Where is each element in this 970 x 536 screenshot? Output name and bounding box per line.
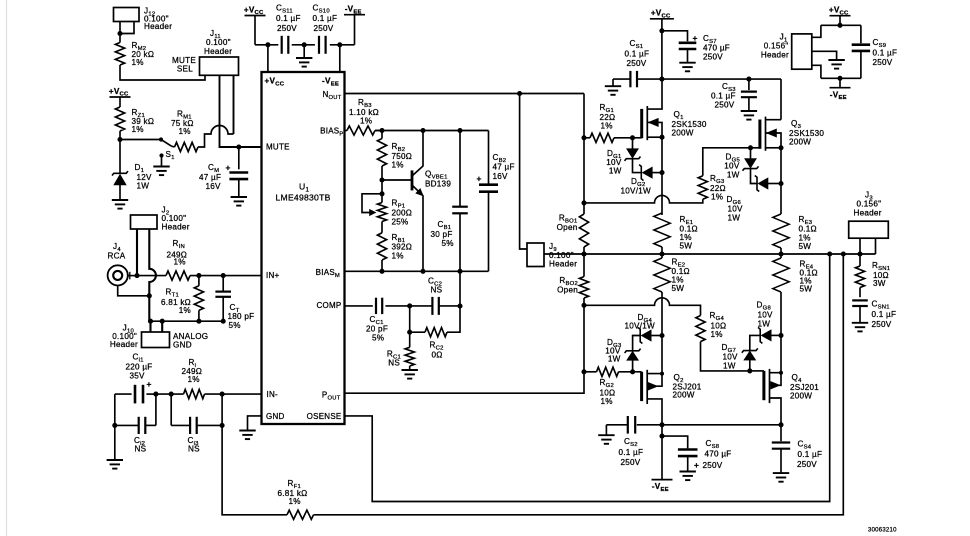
svg-text:0.1 µF: 0.1 µF [711,92,736,101]
power +VCC (J1) [829,6,851,26]
svg-text:Header: Header [144,22,172,31]
svg-text:1%: 1% [188,375,200,384]
wire J11 left pin to MUTE [220,75,262,147]
resistor RC2 [410,306,460,360]
connector J12 header [114,7,173,32]
node IN- junction [220,392,225,426]
connector J2 header [131,206,190,232]
switch S1 [159,137,175,166]
wire feedback run [222,254,843,515]
svg-text:0.156": 0.156" [857,200,882,209]
diode D1 zener [112,140,152,200]
svg-text:250V: 250V [314,24,334,33]
svg-text:0.156": 0.156" [764,42,789,51]
wire Ri to IN- [205,393,262,395]
ground J1 [828,60,844,69]
svg-text:LME49830TB: LME49830TB [276,193,331,203]
svg-text:0.1 µF: 0.1 µF [872,310,897,319]
wire Q1 source to RE1 [661,137,663,215]
svg-text:3W: 3W [873,279,886,288]
power -VEE (U1) [344,5,365,45]
node rail dots [148,319,226,324]
text document number [868,528,897,534]
svg-text:0.1 µF: 0.1 µF [619,448,644,457]
svg-text:250V: 250V [627,59,647,68]
svg-text:Header: Header [162,223,190,232]
wire J12 pins [120,22,134,43]
ground CS7 [679,63,695,72]
svg-text:0.100": 0.100" [206,38,231,47]
resistor RE2 [654,254,690,335]
node RG1-DG1 [630,135,635,140]
ground D1 [112,200,128,209]
ground RC1 [402,370,418,379]
svg-text:250V: 250V [872,320,892,329]
resistor RB2 [377,131,412,181]
node RG3-DG5 [748,145,753,150]
svg-text:IN+: IN+ [266,271,280,280]
svg-text:220 µF: 220 µF [126,363,153,372]
wire BIASM rail [345,270,489,272]
wire N gate bus [583,94,585,255]
ground CSN1 [852,323,868,332]
power +VCC (RZ1) [109,87,131,107]
node DG2-source bus [659,170,664,175]
capacitor CC1 [345,298,410,343]
potentiometer RP1 [362,180,412,233]
wire RIN to IN+ [190,275,262,277]
resistor RBO1 [557,214,589,248]
capacitor CS11 [276,4,301,54]
capacitor CT [215,276,254,330]
diode DG4 zener [625,313,663,351]
resistor RG3 [698,148,750,202]
svg-text:1%: 1% [360,117,372,126]
capacitor CC2 [410,277,460,315]
capacitor CS10 [313,4,338,54]
node RB2 bottom [379,177,384,182]
svg-text:10V: 10V [758,311,774,320]
svg-text:IN-: IN- [267,390,279,399]
capacitor CS1 [625,39,650,87]
resistor Ri [156,358,205,399]
resistor RE1 [654,213,698,254]
wire Q3 source to RE3 [780,148,782,214]
svg-text:1%: 1% [601,397,613,406]
wire Q3 drain drop [780,79,782,120]
svg-text:20 pF: 20 pF [366,325,388,334]
svg-text:1W: 1W [728,214,741,223]
wire NOUT to J9 [520,94,527,250]
node CC2 right [457,303,462,308]
svg-text:+: + [477,174,482,184]
svg-text:5%: 5% [372,334,384,343]
ground CS4 [773,473,789,482]
text ANALOG GND [173,332,208,350]
wire analog ground rail [150,320,223,322]
svg-text:GND: GND [266,412,285,421]
capacitor CB1 [431,131,468,272]
svg-text:250V: 250V [715,101,735,110]
svg-text:OSENSE: OSENSE [307,412,342,421]
svg-text:Open: Open [557,286,578,295]
svg-text:1W: 1W [608,355,621,364]
svg-text:0.1 µF: 0.1 µF [873,49,898,58]
resistor RM1 [171,110,198,152]
transistor Q2 2SJ201 [642,336,702,425]
wire NOUT [345,93,585,95]
svg-text:NS: NS [431,286,443,295]
node NOUT drop [517,91,522,96]
svg-text:10V/1W: 10V/1W [621,187,651,196]
wire Q3 gate link [584,195,703,203]
node J4 out [134,273,139,278]
svg-text:47 µF: 47 µF [199,173,221,182]
diode DG6 zener [727,169,782,223]
svg-text:1W: 1W [609,167,622,176]
svg-text:200Ω: 200Ω [392,209,413,218]
svg-text:250V: 250V [277,24,297,33]
resistor RE4 [773,254,818,335]
ground S1 [153,167,169,176]
node Q2 top stub [660,372,664,376]
svg-text:1%: 1% [289,497,301,506]
node RP1 top [379,191,384,196]
node DG8-source bus [778,333,783,338]
wire VCC rail main [613,78,781,80]
resistor RM2 [115,41,154,67]
node CS8 branch [659,434,664,439]
svg-text:250V: 250V [621,458,641,467]
ground CM [231,197,247,206]
node CC1 right [407,303,412,308]
node D1 junction [117,137,122,142]
wire RZ1 to D1/S1 [120,131,161,140]
node P bus dots [581,303,586,375]
ground CS3 [741,111,757,120]
node N bus dots [581,135,586,205]
wire CC2 to BIASM [459,271,461,306]
svg-text:250V: 250V [873,58,893,67]
svg-text:NS: NS [135,445,147,454]
diode DG2 zener [621,159,663,196]
svg-text:Open: Open [557,223,578,232]
wire output rail [544,253,876,255]
capacitor CB2 [477,131,515,272]
svg-text:+: + [694,460,699,470]
svg-text:1W: 1W [727,171,740,180]
capacitor CS9 [852,25,898,78]
svg-text:5%: 5% [229,321,241,330]
svg-text:Header: Header [549,260,577,269]
resistor RSN1 [855,254,890,297]
svg-text:NS: NS [388,359,400,368]
svg-text:SEL: SEL [177,65,193,74]
diode DG8 zener [750,301,781,351]
svg-text:25%: 25% [392,218,409,227]
node DG6-source bus [778,181,783,186]
svg-text:10V: 10V [724,162,740,171]
svg-text:250V: 250V [797,460,817,469]
svg-text:392Ω: 392Ω [392,243,413,252]
node VCC rail dots [659,77,751,82]
connector J1 header [761,33,812,70]
node bias rail dots [379,128,462,133]
node Ri left dots [153,392,173,397]
svg-text:10V: 10V [723,353,739,362]
node RG4-DG7 [747,368,752,373]
svg-text:MUTE: MUTE [266,143,290,152]
svg-text:1%: 1% [601,122,613,131]
resistor RBO2 [557,254,588,305]
wire -VEE pin drop [339,45,341,72]
svg-text:1W: 1W [758,320,771,329]
svg-text:1%: 1% [392,252,404,261]
svg-text:1%: 1% [179,306,191,315]
svg-text:200W: 200W [790,392,812,401]
wire GND pin [248,416,262,430]
svg-text:+: + [226,163,231,173]
node RT1 top [196,273,201,278]
node rail dots U1 top [265,42,342,47]
resistor RZ1 [115,107,154,134]
svg-text:5W: 5W [800,285,813,294]
capacitor CS7 [662,31,730,62]
resistor RG2 [584,367,642,406]
diode DG5 zener [724,148,758,180]
ground CS1 [605,79,621,95]
wire J2 left pin [136,229,138,276]
diode DG7 zener [722,343,758,371]
node J12-RM2 junction [117,31,122,36]
svg-text:Header: Header [110,340,138,349]
wire J1 top rail [812,25,861,37]
connector J11 header [200,29,239,75]
transistor Q1 2SK1530 [633,79,707,140]
node J1 bottom [837,76,842,81]
power +VCC (U1) [244,5,266,45]
svg-text:1%: 1% [179,127,191,136]
node BIASM dots [379,269,462,274]
svg-text:0.1 µF: 0.1 µF [798,450,823,459]
transistor Q3 2SK1530 [751,117,825,151]
capacitor CS8 [678,439,732,471]
wire to CS8 [662,425,688,449]
text U1 pin labels [265,77,344,422]
svg-text:1%: 1% [392,161,404,170]
svg-text:30 pF: 30 pF [431,230,453,239]
power -VEE (CS2) [652,436,673,493]
capacitor CS4 [772,425,822,473]
svg-text:Header: Header [854,209,882,218]
wire J3 pins [860,238,876,254]
transistor QVBE1 BD139 [382,131,451,272]
resistor RE3 [773,214,817,254]
ground U1 GND [239,431,255,440]
node RG2-DG3 [630,369,635,374]
node CT top [221,273,226,278]
wire Ci1 to Ci2 [114,394,116,425]
resistor RB3 [345,98,383,135]
capacitor Ci2 [115,394,156,453]
svg-text:0.1 µF: 0.1 µF [276,14,301,23]
node Q4 top stub [779,371,783,375]
wire VEE rail left [637,424,781,426]
svg-text:0.1Ω: 0.1Ω [799,225,817,234]
svg-text:0.1 µF: 0.1 µF [313,14,338,23]
node RC1 top [407,330,412,335]
svg-text:250V: 250V [703,53,723,62]
resistor RIN [137,239,190,280]
capacitor CS2 [606,416,643,467]
connector J10 header [110,321,170,349]
svg-text:+: + [693,33,698,43]
capacitor CSN1 [852,300,896,330]
svg-text:47 µF: 47 µF [493,163,515,172]
svg-text:16V: 16V [206,182,222,191]
connector J3 header [849,191,889,239]
capacitor Ci3 [171,394,222,453]
resistor RC1 [387,332,414,369]
svg-text:470 µF: 470 µF [705,450,732,459]
svg-text:NS: NS [188,445,200,454]
capacitor Ci1 [115,353,156,404]
svg-text:0.1 µF: 0.1 µF [625,50,650,59]
svg-text:250V: 250V [703,461,723,470]
svg-text:200W: 200W [672,129,694,138]
connector J9 header [527,242,577,269]
svg-text:10V/1W: 10V/1W [625,321,655,330]
svg-text:1%: 1% [132,125,144,134]
svg-text:1%: 1% [174,258,186,267]
svg-text:1%: 1% [711,330,723,339]
ground CS8 [680,472,696,481]
node Ci3 right [220,423,225,428]
wire J11 right pin [233,75,235,134]
node Q3 source [778,145,783,150]
power +VCC (main) [650,9,674,80]
transistor Q4 2SJ201 [750,335,819,424]
node J1 top [837,23,842,28]
svg-text:35V: 35V [130,372,146,381]
wire RM1 hump over J11 pin [172,126,234,148]
ground CS11/CS10 [296,45,312,67]
diode DG1 zener [606,138,640,176]
node Q4 drain rail [778,422,783,427]
svg-text:5%: 5% [442,239,454,248]
svg-text:Header: Header [761,51,789,60]
svg-text:10V: 10V [728,205,744,214]
text MUTE SEL [172,56,196,74]
svg-text:470 µF: 470 µF [703,44,730,53]
wire J4 shell [118,286,152,299]
wire bias top rail [375,130,489,132]
node Q1 source [659,135,664,140]
wire VCC rail [255,44,355,46]
svg-text:5W: 5W [680,242,693,251]
svg-text:200W: 200W [789,138,811,147]
capacitor CS3 [711,79,757,110]
svg-text:180 pF: 180 pF [228,312,255,321]
wire RM2 to J11 [120,65,205,80]
svg-text:0Ω: 0Ω [432,351,443,360]
op-amp U1 LME49830TB box [262,72,345,424]
node VCC top [659,28,664,33]
resistor RG1 [584,103,633,142]
resistor RF1 [278,479,314,519]
svg-text:1W: 1W [137,182,150,191]
node Q2 drain rail [659,422,664,427]
wire J1 bottom rail [812,65,861,78]
wire J2 right pin hop [149,229,156,321]
capacitor CM [199,144,248,196]
wire +VCC pin drop [267,45,269,72]
svg-text:5W: 5W [672,284,685,293]
svg-text:COMP: COMP [317,301,342,310]
diode DG3 zener [605,338,640,372]
wire J1 mid to ground [812,51,837,59]
connector J4 RCA [108,242,138,286]
svg-text:1%: 1% [132,58,144,67]
svg-text:Header: Header [204,47,232,56]
resistor RG4 [696,311,750,371]
svg-text:1%: 1% [711,193,723,202]
wire RG4 link [584,298,701,316]
ground CS2 [598,425,614,444]
svg-text:RCA: RCA [108,252,126,261]
node output rail dots [581,251,862,256]
node Ci2 left [112,423,117,428]
svg-text:5W: 5W [799,242,812,251]
node DG4-source bus [659,333,664,338]
power -VEE (J1) [830,78,851,101]
svg-text:16V: 16V [493,172,509,181]
svg-text:30063210: 30063210 [868,528,897,534]
ground Ci2 [107,425,123,468]
resistor RB1 [377,233,412,271]
resistor RT1 [161,276,203,322]
svg-text:200W: 200W [673,391,695,400]
wire OSENSE run [345,254,830,502]
svg-text:1W: 1W [723,362,736,371]
svg-text:+: + [147,379,152,389]
wire P gate bus [345,305,585,393]
svg-text:BD139: BD139 [425,179,451,188]
svg-text:GND: GND [173,341,192,350]
